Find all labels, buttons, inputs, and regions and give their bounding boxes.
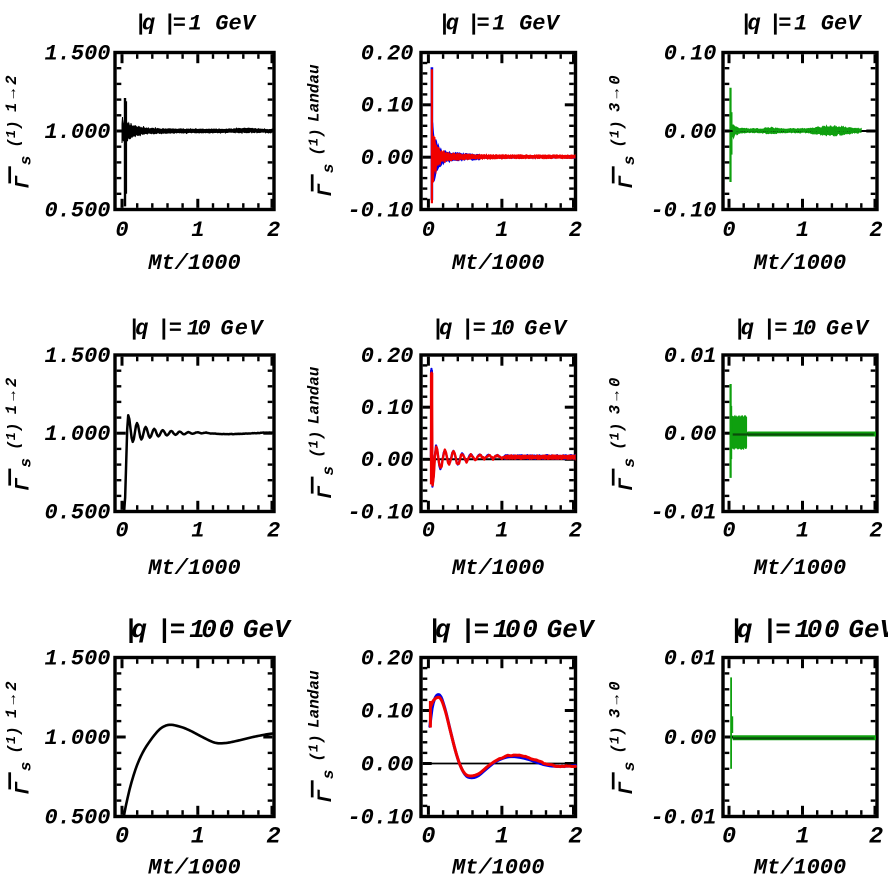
svg-text:1.000: 1.000 [44, 422, 110, 447]
svg-text:1→2: 1→2 [3, 677, 21, 718]
svg-text:0: 0 [115, 824, 129, 851]
svg-text:=: = [477, 12, 490, 37]
svg-text:s: s [18, 762, 36, 772]
svg-text:GeV: GeV [547, 615, 596, 645]
svg-text:=: = [474, 615, 490, 645]
svg-text:1: 1 [495, 218, 508, 243]
svg-text:0: 0 [807, 615, 823, 645]
svg-text:q: q [741, 317, 754, 342]
svg-text:=: = [778, 12, 791, 37]
svg-text:GeV: GeV [821, 12, 862, 37]
svg-text:=: = [170, 615, 186, 645]
svg-text:q: q [439, 317, 452, 342]
svg-text:Mt/1000: Mt/1000 [451, 556, 544, 581]
svg-text:-0.01: -0.01 [650, 805, 716, 830]
svg-text:s: s [18, 156, 36, 166]
svg-text:1: 1 [795, 824, 809, 851]
svg-text:(1): (1) [307, 128, 325, 155]
svg-text:0.20: 0.20 [361, 41, 414, 66]
svg-text:3→0: 3→0 [606, 373, 624, 414]
svg-text:0: 0 [115, 218, 128, 243]
svg-text:0: 0 [722, 218, 735, 243]
svg-text:0: 0 [115, 519, 128, 544]
svg-text:2: 2 [869, 824, 883, 851]
svg-text:1.500: 1.500 [44, 41, 110, 66]
panel row 1 col 0 [115, 355, 274, 512]
svg-text:(1): (1) [608, 423, 626, 450]
svg-text:s: s [18, 458, 36, 468]
svg-text:(1): (1) [307, 431, 325, 458]
svg-text:0.00: 0.00 [664, 422, 717, 447]
svg-text:0.00: 0.00 [664, 726, 717, 751]
svg-text:Mt/1000: Mt/1000 [753, 856, 846, 881]
svg-text:1.500: 1.500 [44, 344, 110, 369]
svg-text:0.10: 0.10 [664, 41, 717, 66]
svg-text:Γ: Γ [12, 477, 35, 491]
svg-text:0: 0 [422, 218, 435, 243]
svg-text:0: 0 [219, 615, 235, 645]
svg-text:0.10: 0.10 [361, 699, 414, 724]
svg-text:(1): (1) [608, 726, 626, 753]
svg-text:2: 2 [569, 218, 582, 243]
svg-text:0: 0 [421, 824, 435, 851]
svg-text:1→2: 1→2 [3, 373, 21, 414]
svg-text:(1): (1) [307, 734, 325, 761]
svg-text:1: 1 [796, 218, 809, 243]
svg-text:Mt/1000: Mt/1000 [147, 251, 240, 276]
svg-text:s: s [621, 156, 639, 166]
svg-text:s: s [621, 458, 639, 468]
svg-text:q: q [142, 12, 155, 37]
svg-text:2: 2 [869, 519, 882, 544]
svg-text:Mt/1000: Mt/1000 [451, 251, 544, 276]
svg-text:0: 0 [501, 317, 514, 342]
svg-text:0.00: 0.00 [361, 752, 414, 777]
svg-text:Γ: Γ [616, 175, 639, 189]
svg-text:0.500: 0.500 [44, 500, 110, 525]
svg-text:0.01: 0.01 [664, 646, 717, 671]
svg-text:Γ: Γ [616, 781, 639, 795]
svg-text:2: 2 [267, 218, 280, 243]
svg-text:0.20: 0.20 [361, 646, 414, 671]
svg-text:1: 1 [495, 519, 508, 544]
svg-text:s: s [320, 466, 338, 476]
svg-text:1: 1 [796, 519, 809, 544]
svg-text:q: q [446, 12, 459, 37]
svg-text:s: s [621, 762, 639, 772]
svg-text:0: 0 [522, 615, 538, 645]
svg-text:2: 2 [869, 218, 882, 243]
svg-text:(1): (1) [608, 120, 626, 147]
svg-text:0.00: 0.00 [361, 448, 414, 473]
svg-text:0.00: 0.00 [361, 146, 414, 171]
panel row 2 col 1 [421, 658, 576, 817]
svg-text:2: 2 [569, 519, 582, 544]
svg-text:-0.10: -0.10 [347, 805, 413, 830]
panel row 1 col 2 [723, 355, 877, 512]
svg-text:Γ: Γ [315, 789, 338, 803]
svg-text:0: 0 [803, 317, 816, 342]
svg-text:0: 0 [824, 615, 840, 645]
svg-text:Γ: Γ [12, 175, 35, 189]
svg-text:=: = [169, 317, 182, 342]
svg-text:Mt/1000: Mt/1000 [753, 556, 846, 581]
svg-text:s: s [320, 164, 338, 174]
svg-text:0.10: 0.10 [361, 94, 414, 119]
svg-text:Γ: Γ [315, 183, 338, 197]
svg-text:3→0: 3→0 [606, 677, 624, 718]
svg-text:(1): (1) [5, 120, 23, 147]
svg-text:q: q [131, 615, 147, 645]
svg-text:0.500: 0.500 [44, 198, 110, 223]
svg-text:1: 1 [189, 12, 202, 37]
panel row 1 col 1 [421, 355, 576, 512]
svg-text:-0.10: -0.10 [650, 198, 716, 223]
svg-text:1: 1 [794, 12, 807, 37]
panel row 2 col 0 [115, 658, 274, 817]
svg-text:1: 1 [191, 824, 205, 851]
svg-text:1.000: 1.000 [44, 120, 110, 145]
svg-text:GeV: GeV [826, 317, 870, 342]
svg-text:Γ: Γ [12, 781, 35, 795]
svg-text:0: 0 [422, 519, 435, 544]
svg-text:GeV: GeV [519, 12, 560, 37]
svg-text:Γ: Γ [616, 477, 639, 491]
svg-text:Mt/1000: Mt/1000 [451, 856, 544, 881]
svg-text:Mt/1000: Mt/1000 [753, 251, 846, 276]
panel row 0 col 2 [723, 53, 877, 210]
svg-text:0: 0 [722, 519, 735, 544]
svg-text:0: 0 [198, 317, 211, 342]
svg-text:2: 2 [267, 824, 281, 851]
svg-text:=: = [473, 317, 486, 342]
svg-text:0.00: 0.00 [664, 120, 717, 145]
svg-text:0.01: 0.01 [664, 344, 717, 369]
svg-text:0.10: 0.10 [361, 396, 414, 421]
svg-text:(1): (1) [5, 423, 23, 450]
svg-text:-0.01: -0.01 [650, 500, 716, 525]
panel row 2 col 2 [723, 658, 877, 817]
svg-text:=: = [775, 615, 791, 645]
svg-text:Γ: Γ [315, 485, 338, 499]
svg-text:=: = [774, 317, 787, 342]
svg-text:Landau: Landau [305, 366, 323, 424]
svg-text:0: 0 [505, 615, 521, 645]
panel row 0 col 0 [115, 53, 274, 210]
svg-text:q: q [737, 615, 753, 645]
svg-text:1.000: 1.000 [44, 726, 110, 751]
svg-text:1: 1 [191, 519, 204, 544]
svg-text:=: = [173, 12, 186, 37]
svg-text:GeV: GeV [220, 317, 264, 342]
svg-text:Mt/1000: Mt/1000 [147, 856, 240, 881]
svg-text:0: 0 [722, 824, 736, 851]
svg-text:q: q [748, 12, 761, 37]
svg-text:0.20: 0.20 [361, 344, 414, 369]
svg-text:-0.10: -0.10 [347, 500, 413, 525]
svg-text:Mt/1000: Mt/1000 [147, 556, 240, 581]
svg-text:2: 2 [267, 519, 280, 544]
svg-text:Landau: Landau [305, 64, 323, 122]
svg-text:1.500: 1.500 [44, 646, 110, 671]
svg-text:q: q [135, 317, 148, 342]
svg-text:0.500: 0.500 [44, 805, 110, 830]
svg-text:0: 0 [201, 615, 217, 645]
svg-text:-0.10: -0.10 [347, 198, 413, 223]
svg-text:GeV: GeV [243, 615, 292, 645]
svg-text:1→2: 1→2 [3, 71, 21, 112]
svg-text:GeV: GeV [524, 317, 568, 342]
svg-text:q: q [435, 615, 451, 645]
svg-text:GeV: GeV [215, 12, 256, 37]
svg-text:Landau: Landau [305, 670, 323, 728]
svg-text:2: 2 [568, 824, 582, 851]
svg-text:1: 1 [191, 218, 204, 243]
svg-text:s: s [320, 770, 338, 780]
svg-text:GeV: GeV [848, 615, 888, 645]
svg-text:1: 1 [492, 12, 505, 37]
svg-text:1: 1 [495, 824, 509, 851]
svg-text:(1): (1) [5, 726, 23, 753]
panel row 0 col 1 [421, 53, 576, 210]
svg-text:3→0: 3→0 [606, 71, 624, 112]
